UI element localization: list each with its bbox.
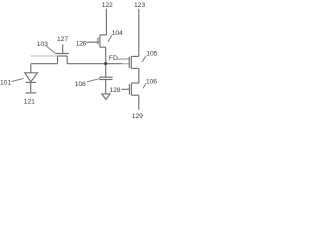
leader line 105 (142, 56, 146, 62)
node FD junction dot (104, 62, 107, 65)
terminal bar 121 (25, 92, 36, 94)
wire 123 lead vertical (138, 9, 140, 56)
label 104 (112, 30, 123, 37)
svg-text:103: 103 (37, 41, 48, 48)
transistor 103 (transfer gate) (55, 44, 69, 64)
ground symbol (open triangle) (102, 94, 110, 100)
label 103 (37, 41, 48, 48)
wire gate lead of 105 from FD (116, 58, 129, 60)
label 121 (24, 98, 35, 105)
wire 104 source to FD node (105, 47, 107, 64)
leader line 101 (12, 78, 24, 81)
leader line 104 (108, 35, 112, 42)
svg-text:105: 105 (146, 51, 157, 58)
transistor 105 (source follower) (129, 56, 139, 68)
transistor 106 (row select) (129, 83, 138, 95)
leader line 106 (143, 83, 146, 88)
label 123 (134, 2, 145, 9)
leader line 108 (87, 79, 100, 82)
label 122 (102, 2, 113, 9)
label FD (109, 55, 118, 62)
photodiode 101 (25, 64, 38, 93)
wire 105 source to 106 drain (138, 68, 140, 83)
label 129 (132, 113, 143, 120)
label 108 (75, 81, 86, 88)
svg-text:128: 128 (109, 87, 120, 94)
faint channel extension line (31, 55, 58, 57)
wire FD horizontal faint end (123, 63, 130, 65)
svg-text:101: 101 (0, 79, 11, 86)
transistor 104 (reset) (86, 35, 106, 47)
svg-text:122: 122 (102, 2, 113, 9)
svg-text:121: 121 (24, 98, 35, 105)
svg-text:108: 108 (75, 81, 86, 88)
label 105 (146, 51, 157, 58)
label 106 (146, 79, 157, 86)
wire output to 129 (138, 95, 140, 110)
wire 122 lead vertical (105, 9, 107, 35)
svg-text:126: 126 (76, 41, 87, 48)
svg-text:106: 106 (146, 79, 157, 86)
label 128 (109, 87, 120, 94)
capacitor 108 (99, 64, 112, 94)
wire gate lead of 106 (121, 88, 129, 90)
svg-text:129: 129 (132, 113, 143, 120)
leader line 103 (46, 46, 55, 53)
wire FD horizontal (67, 63, 122, 65)
svg-text:127: 127 (57, 36, 68, 43)
label 126 (76, 41, 87, 48)
svg-text:123: 123 (134, 2, 145, 9)
label 101 (0, 79, 11, 86)
svg-text:104: 104 (112, 30, 123, 37)
label 127 (57, 36, 68, 43)
wire photodiode to transfer gate (31, 63, 58, 65)
